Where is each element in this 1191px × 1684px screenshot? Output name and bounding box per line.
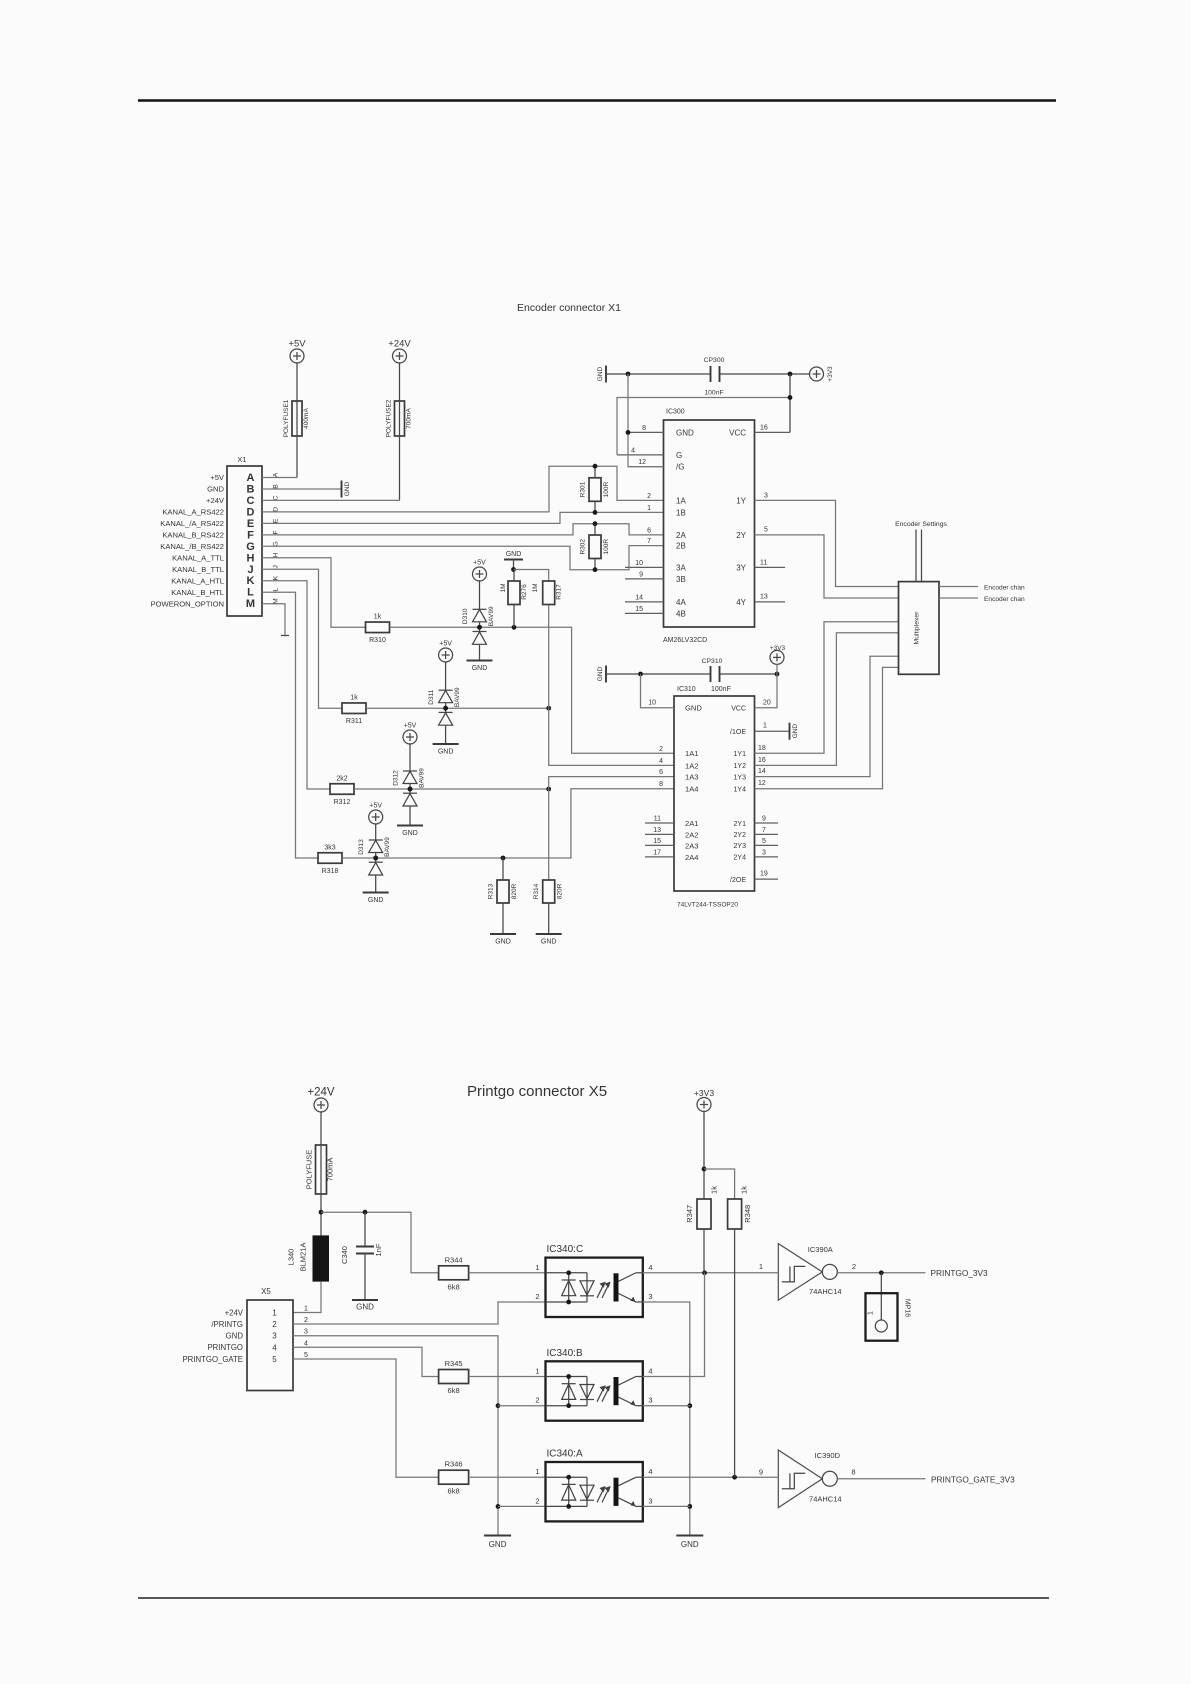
svg-text:G: G bbox=[676, 451, 682, 460]
wire branch to R348 bbox=[704, 1169, 735, 1199]
svg-text:6k8: 6k8 bbox=[448, 1282, 460, 1291]
svg-text:4: 4 bbox=[659, 758, 663, 765]
svg-text:H: H bbox=[247, 552, 255, 564]
svg-text:AM26LV32CD: AM26LV32CD bbox=[663, 637, 707, 644]
resistor R301 100R bbox=[589, 478, 601, 502]
svg-text:400mA: 400mA bbox=[303, 408, 310, 429]
svg-text:2Y: 2Y bbox=[736, 531, 746, 540]
IC310 pin 3 stub bbox=[755, 856, 779, 858]
svg-text:100nF: 100nF bbox=[704, 390, 723, 397]
svg-text:1: 1 bbox=[868, 1311, 875, 1315]
polyfuse POLYFUSE1 400mA bbox=[296, 362, 298, 401]
junction dot D313/R318 net bbox=[373, 856, 378, 861]
svg-text:9: 9 bbox=[762, 816, 766, 823]
svg-text:700mA: 700mA bbox=[406, 408, 413, 429]
svg-text:IC300: IC300 bbox=[666, 409, 685, 416]
svg-text:4: 4 bbox=[648, 1367, 652, 1376]
inverter IC390D 74AHC14 bbox=[778, 1450, 822, 1508]
svg-text:74AHC14: 74AHC14 bbox=[809, 1287, 842, 1296]
svg-text:8: 8 bbox=[851, 1468, 855, 1477]
IC300 pin 4 stub bbox=[617, 454, 664, 456]
svg-text:+5V: +5V bbox=[210, 473, 225, 482]
junction dot R347 bottom / C pin4 bbox=[702, 1270, 707, 1275]
svg-text:9: 9 bbox=[639, 571, 643, 578]
svg-text:1: 1 bbox=[759, 1262, 763, 1271]
wire KANAL_/B_RS422 X1.G to IC300 2B bbox=[262, 546, 664, 570]
IC310 pin 9 stub bbox=[755, 822, 779, 824]
IC300 pin 11 stub 3Y bbox=[755, 566, 786, 568]
svg-text:5: 5 bbox=[272, 1355, 277, 1364]
svg-text:C340: C340 bbox=[340, 1246, 349, 1264]
svg-text:14: 14 bbox=[635, 594, 643, 601]
junction dot GND rail at IC340:A pin3 bbox=[687, 1504, 692, 1509]
optocoupler IC340:B body bbox=[546, 1361, 643, 1420]
IC300 pin 9 stub bbox=[625, 578, 664, 580]
svg-text:100R: 100R bbox=[603, 539, 610, 555]
diode D312 BAV99 dual clamp bbox=[403, 743, 417, 825]
svg-text:/2OE: /2OE bbox=[730, 877, 746, 884]
svg-text:PRINTGO_GATE: PRINTGO_GATE bbox=[182, 1355, 243, 1364]
diode D313 BAV99 dual clamp bbox=[369, 823, 383, 892]
svg-text:D: D bbox=[273, 507, 280, 512]
ground symbol below D310 bbox=[467, 660, 493, 662]
svg-text:3: 3 bbox=[648, 1292, 652, 1301]
svg-text:4B: 4B bbox=[676, 609, 686, 618]
wire IC340:C pin4 to IC390A input bbox=[643, 1272, 778, 1274]
svg-text:KANAL_B_TTL: KANAL_B_TTL bbox=[172, 565, 224, 574]
svg-text:15: 15 bbox=[635, 606, 643, 613]
svg-text:R301: R301 bbox=[580, 481, 587, 497]
svg-text:R276: R276 bbox=[521, 584, 528, 600]
wire G enable to VCC net bbox=[617, 398, 790, 455]
svg-text:B: B bbox=[273, 484, 280, 489]
svg-text:E: E bbox=[247, 518, 254, 530]
junction dot GND rail at IC340:B pin3 bbox=[687, 1403, 692, 1408]
ground symbol at CP300 bbox=[605, 366, 607, 383]
svg-text:16: 16 bbox=[758, 757, 766, 764]
wire +3V3 to IC310 pin 20 VCC bbox=[755, 664, 778, 708]
wire stub IC340:B pin3 bbox=[643, 1405, 690, 1407]
svg-text:5: 5 bbox=[764, 527, 768, 534]
connector X5 body bbox=[247, 1300, 293, 1391]
svg-text:KANAL_B_RS422: KANAL_B_RS422 bbox=[162, 531, 224, 540]
wire +24V branch to R344 bbox=[321, 1212, 439, 1273]
polyfuse POLYFUSE2 700mA bbox=[399, 362, 401, 401]
svg-text:+3V3: +3V3 bbox=[770, 645, 786, 652]
wire R310 to IC310 1A1 bbox=[390, 627, 675, 753]
bottom rule line bbox=[138, 1597, 1049, 1599]
IC340:A light arrows bbox=[597, 1486, 611, 1502]
svg-text:BAV99: BAV99 bbox=[454, 687, 461, 707]
svg-text:1k: 1k bbox=[740, 1186, 749, 1194]
svg-text:E: E bbox=[273, 518, 280, 523]
junction dot at D311 bbox=[443, 706, 448, 711]
wire GND junction to R317 top bbox=[514, 570, 549, 582]
svg-text:74LVT244-TSSOP20: 74LVT244-TSSOP20 bbox=[677, 902, 738, 909]
wire CP300 to +3V3 bbox=[720, 373, 811, 375]
wire junction vertical to IC310 1A2 bbox=[549, 605, 674, 766]
capacitor CP300 100nF bbox=[710, 366, 712, 382]
svg-text:/G: /G bbox=[676, 463, 684, 472]
svg-text:G: G bbox=[273, 541, 280, 546]
svg-text:GND: GND bbox=[344, 481, 351, 496]
svg-text:2: 2 bbox=[659, 746, 663, 753]
IC340:A LED junction dots bbox=[566, 1475, 571, 1480]
inverter IC390A 74AHC14 bbox=[778, 1244, 822, 1301]
IC310 pin 7 stub bbox=[755, 833, 779, 835]
IC310 pin 17 stub bbox=[645, 856, 674, 858]
ground symbol below C340 bbox=[352, 1299, 378, 1301]
svg-text:POLYFUSE1: POLYFUSE1 bbox=[283, 399, 290, 437]
svg-text:Printgo connector X5: Printgo connector X5 bbox=[467, 1083, 607, 1100]
svg-text:14: 14 bbox=[758, 768, 766, 775]
IC340:C phototransistor bbox=[614, 1273, 643, 1302]
svg-text:3A: 3A bbox=[676, 563, 686, 572]
wire X1.B to GND bbox=[262, 488, 342, 490]
svg-text:1A2: 1A2 bbox=[685, 761, 699, 770]
svg-text:+24V: +24V bbox=[388, 339, 411, 350]
svg-text:+5V: +5V bbox=[369, 803, 382, 810]
+3V3 power symbol (printgo) bbox=[697, 1098, 711, 1112]
svg-text:7: 7 bbox=[762, 827, 766, 834]
svg-text:GND: GND bbox=[676, 428, 694, 437]
wire CP310 to +3V3 drop bbox=[720, 673, 778, 675]
svg-text:/PRINTG: /PRINTG bbox=[211, 1320, 243, 1329]
IC340:B light arrows bbox=[597, 1385, 611, 1401]
ground symbol bottom left bbox=[484, 1535, 511, 1537]
wire R318 to IC310 1A4 bbox=[342, 789, 674, 858]
IC300 pin 16 stub VCC bbox=[755, 431, 791, 433]
svg-text:PRINTGO_3V3: PRINTGO_3V3 bbox=[931, 1268, 989, 1278]
svg-text:3Y: 3Y bbox=[736, 563, 746, 572]
svg-text:2Y1: 2Y1 bbox=[734, 821, 747, 828]
wire IC340:A pin4 to IC390D input bbox=[643, 1476, 778, 1478]
svg-text:+24V: +24V bbox=[225, 1308, 244, 1317]
svg-text:6k8: 6k8 bbox=[448, 1487, 460, 1496]
svg-text:1k: 1k bbox=[710, 1186, 719, 1194]
svg-text:1A3: 1A3 bbox=[685, 773, 699, 782]
svg-text:GND: GND bbox=[506, 551, 522, 558]
wire KANAL_B_HTL X1.L to R318 bbox=[262, 592, 318, 858]
wire R345 to IC340:B pin1 bbox=[469, 1376, 546, 1378]
ground symbol below R314 bbox=[536, 933, 562, 935]
svg-text:VCC: VCC bbox=[729, 428, 746, 437]
svg-text:3: 3 bbox=[648, 1496, 652, 1505]
svg-text:X5: X5 bbox=[261, 1287, 271, 1296]
+5V power symbol for D312 bbox=[403, 730, 417, 744]
svg-text:12: 12 bbox=[638, 459, 646, 466]
svg-text:GND: GND bbox=[681, 1540, 699, 1549]
svg-text:A: A bbox=[273, 472, 280, 477]
svg-text:2: 2 bbox=[852, 1262, 856, 1271]
svg-text:2: 2 bbox=[535, 1496, 539, 1505]
svg-text:100nF: 100nF bbox=[711, 686, 731, 693]
svg-text:D310: D310 bbox=[462, 608, 469, 624]
svg-text:Encoder connector X1: Encoder connector X1 bbox=[517, 302, 621, 314]
svg-text:+24V: +24V bbox=[206, 496, 225, 505]
resistor R347 1k bbox=[697, 1199, 711, 1229]
svg-text:2: 2 bbox=[535, 1396, 539, 1405]
svg-text:2A: 2A bbox=[676, 531, 686, 540]
ground symbol below D312 bbox=[397, 825, 423, 827]
svg-text:4A: 4A bbox=[676, 598, 686, 607]
svg-text:13: 13 bbox=[760, 594, 768, 601]
+5V power symbol for D313 bbox=[369, 810, 383, 824]
svg-text:Encoder Settings: Encoder Settings bbox=[895, 521, 947, 528]
wire GND to CP310 bbox=[606, 673, 711, 675]
IC340:B phototransistor bbox=[614, 1377, 643, 1406]
svg-text:1M: 1M bbox=[500, 583, 507, 592]
wire IC390D output PRINTGO_GATE_3V3 bbox=[837, 1478, 925, 1480]
svg-text:KANAL_B_HTL: KANAL_B_HTL bbox=[171, 588, 224, 597]
wire stub to IC340:A pin2 bbox=[498, 1505, 546, 1507]
svg-text:B: B bbox=[247, 484, 255, 496]
svg-text:R318: R318 bbox=[322, 868, 339, 875]
junction dot C340 top bbox=[363, 1210, 368, 1215]
svg-text:L: L bbox=[247, 587, 254, 599]
polyfuse POLYFUSE 700mA bbox=[320, 1111, 322, 1145]
svg-text:GND: GND bbox=[489, 1540, 507, 1549]
svg-text:2A4: 2A4 bbox=[685, 853, 699, 862]
svg-text:2A3: 2A3 bbox=[685, 841, 699, 850]
svg-text:GND: GND bbox=[792, 724, 799, 739]
svg-text:GND: GND bbox=[597, 366, 604, 381]
svg-text:BAV99: BAV99 bbox=[488, 606, 495, 626]
svg-text:2Y2: 2Y2 bbox=[734, 832, 747, 839]
wire Encoder chan output 2 bbox=[939, 597, 978, 599]
svg-text:GND: GND bbox=[207, 485, 224, 494]
junction dot R301 bottom bbox=[593, 510, 598, 515]
+24V power symbol (X5) bbox=[314, 1098, 328, 1112]
wire X5 pin3 GND rail bbox=[293, 1336, 498, 1536]
svg-text:10: 10 bbox=[648, 700, 656, 707]
svg-text:K: K bbox=[247, 575, 255, 587]
junction dot VCC branch CP300 bbox=[788, 372, 793, 377]
svg-text:GND: GND bbox=[226, 1332, 244, 1341]
junction dot at D312 bbox=[408, 787, 413, 792]
wire R348 down to A pin4 bbox=[734, 1229, 736, 1477]
svg-text:POLYFUSE2: POLYFUSE2 bbox=[386, 399, 393, 437]
svg-text:D313: D313 bbox=[358, 839, 365, 855]
optocoupler IC340:A body bbox=[546, 1462, 643, 1521]
wire MP16 to node bbox=[880, 1273, 882, 1320]
svg-text:Encoder chan: Encoder chan bbox=[984, 596, 1025, 603]
junction dot R302 bottom bbox=[593, 567, 598, 572]
svg-text:BAV99: BAV99 bbox=[384, 837, 391, 857]
svg-text:1: 1 bbox=[535, 1467, 539, 1476]
svg-text:3: 3 bbox=[648, 1396, 652, 1405]
svg-text:11: 11 bbox=[760, 560, 767, 567]
svg-text:3: 3 bbox=[762, 849, 766, 856]
wire R344 to IC340:C pin1 bbox=[469, 1272, 546, 1274]
svg-text:4: 4 bbox=[304, 1340, 308, 1347]
svg-text:5: 5 bbox=[304, 1352, 308, 1359]
svg-text:D: D bbox=[247, 506, 255, 518]
IC340:B LED junction dots bbox=[566, 1374, 571, 1379]
wire X5 pin5 PRINTGO_GATE to R346 bbox=[293, 1359, 439, 1477]
junction dot R348 bottom / A pin4 bbox=[732, 1475, 737, 1480]
top rule line bbox=[138, 99, 1056, 101]
open end tick on POWERON_OPTION bbox=[281, 635, 289, 637]
svg-text:20: 20 bbox=[763, 700, 771, 707]
svg-text:GND: GND bbox=[356, 1303, 374, 1312]
IC300 pin 8 stub bbox=[628, 431, 664, 433]
svg-text:1nF: 1nF bbox=[374, 1243, 383, 1256]
svg-text:1A: 1A bbox=[676, 496, 686, 505]
wire KANAL_/A_RS422 X1.E to IC300 1B bbox=[262, 512, 664, 523]
junction dot R347/R348 top bbox=[702, 1167, 707, 1172]
svg-text:C: C bbox=[247, 495, 255, 507]
resistor R345 6k8 bbox=[439, 1370, 469, 1384]
svg-text:8: 8 bbox=[659, 781, 663, 788]
ground symbol on X1.B bbox=[341, 481, 343, 498]
IC340:C internal LED pair bbox=[546, 1273, 595, 1302]
resistor R314 820R bbox=[543, 880, 555, 903]
resistor R344 6k8 bbox=[439, 1266, 469, 1280]
IC310 pin 15 stub bbox=[645, 844, 674, 846]
svg-text:IC340:B: IC340:B bbox=[547, 1348, 583, 1359]
IC300 pin 14 stub bbox=[625, 601, 664, 603]
svg-text:7: 7 bbox=[647, 538, 651, 545]
IC300 pin 15 stub bbox=[625, 612, 664, 614]
svg-text:6k8: 6k8 bbox=[448, 1386, 460, 1395]
svg-text:GND: GND bbox=[368, 897, 384, 904]
svg-text:+5V: +5V bbox=[288, 339, 306, 350]
IC340:B internal LED pair bbox=[546, 1377, 595, 1406]
svg-text:K: K bbox=[273, 575, 280, 580]
svg-text:KANAL_/B_RS422: KANAL_/B_RS422 bbox=[160, 542, 224, 551]
svg-text:1A4: 1A4 bbox=[685, 785, 699, 794]
wire IC390A output PRINTGO_3V3 bbox=[837, 1272, 925, 1274]
svg-text:2: 2 bbox=[535, 1292, 539, 1301]
wire KANAL_A_TTL X1.H to R310 bbox=[262, 558, 366, 628]
wire Encoder chan output 1 bbox=[939, 586, 978, 588]
diode D311 BAV99 dual clamp bbox=[439, 661, 453, 744]
wire X5 pin4 PRINTGO to R345 bbox=[293, 1347, 439, 1376]
svg-text:POLYFUSE: POLYFUSE bbox=[305, 1150, 314, 1189]
+3V3 power symbol at CP300 bbox=[810, 367, 824, 381]
resistor R346 6k8 bbox=[439, 1470, 469, 1484]
svg-text:R311: R311 bbox=[346, 718, 362, 725]
wire KANAL_B_TTL X1.J to R311 bbox=[262, 569, 342, 708]
svg-text:MP16: MP16 bbox=[904, 1299, 911, 1317]
junction dot R302 top bbox=[593, 521, 598, 526]
svg-text:KANAL_A_RS422: KANAL_A_RS422 bbox=[162, 508, 224, 517]
svg-text:R314: R314 bbox=[533, 883, 540, 899]
svg-text:GND: GND bbox=[438, 749, 454, 756]
svg-text:1Y2: 1Y2 bbox=[734, 763, 747, 770]
ground symbol below R313 bbox=[490, 933, 516, 935]
svg-text:1Y3: 1Y3 bbox=[734, 774, 747, 781]
svg-text:1: 1 bbox=[647, 505, 651, 512]
junction dot polyfuse/C340 bbox=[319, 1210, 324, 1215]
svg-text:820R: 820R bbox=[511, 883, 518, 899]
svg-text:IC310: IC310 bbox=[677, 686, 696, 693]
junction dot D311/R311 net bbox=[443, 706, 448, 711]
resistor R317 1M bbox=[543, 581, 555, 605]
junction dot GND branch CP300 bbox=[626, 372, 631, 377]
svg-text:BAV99: BAV99 bbox=[419, 768, 426, 788]
svg-text:+5V: +5V bbox=[473, 560, 486, 567]
junction dot D310/R310 net bbox=[477, 625, 482, 630]
svg-text:PRINTGO_GATE_3V3: PRINTGO_GATE_3V3 bbox=[931, 1475, 1015, 1485]
svg-text:J: J bbox=[247, 564, 253, 576]
svg-text:CP300: CP300 bbox=[704, 357, 725, 364]
wire R312 to junction bbox=[354, 788, 549, 790]
wire IC340:B pin4 riser to C pin4 node bbox=[643, 1273, 705, 1377]
svg-text:+24V: +24V bbox=[307, 1087, 335, 1099]
IC310 pin 13 stub bbox=[645, 833, 674, 835]
IC310 pin 1 stub /1OE to GND bbox=[755, 730, 790, 732]
junction dot IC300 pin8 bbox=[626, 430, 631, 435]
svg-text:KANAL_/A_RS422: KANAL_/A_RS422 bbox=[160, 519, 224, 528]
svg-text:GND: GND bbox=[685, 704, 702, 713]
ground symbol bottom right bbox=[676, 1535, 703, 1537]
svg-text:2: 2 bbox=[304, 1317, 308, 1324]
svg-text:11: 11 bbox=[654, 816, 661, 823]
junction dot R276 bottom bbox=[512, 625, 517, 630]
wire KANAL_B_RS422 X1.F to IC300 2A bbox=[262, 524, 664, 535]
svg-text:1: 1 bbox=[535, 1263, 539, 1272]
svg-text:2A2: 2A2 bbox=[685, 830, 699, 839]
wire R346 to IC340:A pin1 bbox=[469, 1476, 546, 1478]
wire L340 to X5 pin1 bbox=[293, 1282, 321, 1313]
wire IC300 2Y to multiplexer bbox=[755, 535, 899, 598]
ground symbol below D313 bbox=[363, 892, 389, 894]
svg-text:700mA: 700mA bbox=[326, 1158, 335, 1182]
svg-text:5: 5 bbox=[762, 838, 766, 845]
svg-text:4Y: 4Y bbox=[736, 598, 746, 607]
svg-text:2B: 2B bbox=[676, 542, 686, 551]
IC300 pin 13 stub 4Y bbox=[755, 601, 786, 603]
wire KANAL_A_HTL X1.K to R312 bbox=[262, 581, 330, 789]
+5V power symbol for D310 bbox=[473, 567, 487, 581]
svg-text:X1: X1 bbox=[237, 455, 246, 464]
svg-text:GND: GND bbox=[402, 830, 418, 837]
wire IC300 1Y to multiplexer bbox=[755, 500, 899, 586]
IC340:A internal LED pair bbox=[546, 1477, 595, 1506]
+5V power symbol (top left) bbox=[290, 349, 304, 363]
junction dot R311/R317 vertical bbox=[546, 706, 551, 711]
svg-text:C: C bbox=[273, 495, 280, 500]
IC310 pin 19 stub /2OE bbox=[755, 878, 779, 880]
svg-text:17: 17 bbox=[653, 849, 661, 856]
wire IC340:C pin3 to GND rail bbox=[643, 1302, 690, 1536]
svg-text:BLM21A: BLM21A bbox=[299, 1243, 308, 1272]
wire KANAL_A_RS422 X1.D to IC300 1A bbox=[262, 466, 664, 512]
resistor R318 3k3 bbox=[318, 853, 342, 864]
wire IC310 1Y4 to multiplexer bbox=[755, 667, 899, 788]
svg-text:2Y4: 2Y4 bbox=[734, 855, 747, 862]
junction dot GND rail at IC340:B pin2 bbox=[496, 1403, 501, 1408]
wire IC310 1Y1 to multiplexer bbox=[755, 622, 899, 754]
svg-text:3: 3 bbox=[304, 1329, 308, 1336]
IC IC300 AM26LV32CD body bbox=[664, 420, 755, 627]
svg-text:1k: 1k bbox=[374, 614, 382, 621]
svg-text:+3V3: +3V3 bbox=[827, 366, 834, 382]
junction dot R313 top bbox=[501, 856, 506, 861]
wire stub IC340:A pin3 bbox=[643, 1505, 690, 1507]
IC340:C LED junction dots bbox=[566, 1270, 571, 1275]
ground symbol below D311 bbox=[433, 743, 459, 745]
svg-text:GND: GND bbox=[495, 939, 511, 946]
svg-text:L340: L340 bbox=[287, 1249, 296, 1266]
svg-text:4: 4 bbox=[272, 1343, 277, 1352]
svg-text:1: 1 bbox=[304, 1306, 308, 1313]
svg-text:R310: R310 bbox=[369, 637, 386, 644]
svg-text:A: A bbox=[247, 472, 255, 484]
svg-text:R313: R313 bbox=[488, 883, 495, 899]
